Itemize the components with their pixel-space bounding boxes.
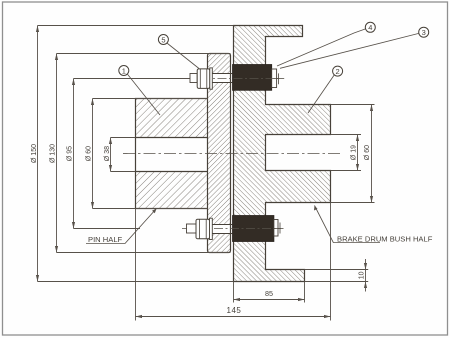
dimension D60 bottom extension line — [93, 208, 208, 210]
balloon 1 leader — [127, 74, 160, 115]
lower pin bolt centerline — [182, 228, 281, 230]
svg-text:Ø 60: Ø 60 — [86, 146, 93, 161]
dimension D95 bottom extension line — [74, 228, 141, 230]
svg-text:Ø 150: Ø 150 — [31, 144, 38, 163]
dimension D19 extension lines — [331, 135, 362, 171]
svg-text:4: 4 — [368, 23, 372, 32]
upper pin washer — [210, 68, 213, 89]
lower pin end cross mark — [274, 223, 284, 234]
dimension 10 extension lines — [305, 270, 369, 282]
upper pin nut — [197, 69, 210, 89]
brake drum hatched body — [234, 26, 331, 282]
upper pin bush (dark) — [233, 65, 272, 91]
balloon 4 leader — [277, 29, 366, 66]
label BRAKE DRUM BUSH HALF underline and leader — [315, 206, 381, 243]
svg-text:5: 5 — [161, 35, 165, 44]
dimension 85 horizontal line with arrows — [234, 299, 305, 301]
dimension D38 extension lines — [111, 138, 136, 172]
balloon circle 1 — [119, 66, 129, 76]
svg-text:1: 1 — [122, 66, 126, 75]
lower bush end cap — [274, 220, 278, 237]
dimension D130 bottom extension line — [57, 252, 231, 254]
dimension D150 bottom extension line — [38, 281, 234, 283]
dimension D130 top extension line — [57, 53, 231, 55]
balloon circle 2 — [333, 66, 343, 76]
dimension D19 right vertical line with arrows — [357, 135, 359, 171]
svg-text:Ø 19: Ø 19 — [351, 145, 358, 160]
dimension D38 vertical line with arrows — [110, 138, 112, 172]
upper pin shank — [212, 74, 232, 83]
dimension D150 vertical line with arrows — [37, 26, 39, 282]
dimension D95 vertical line with arrows — [73, 79, 75, 229]
svg-text:Ø 38: Ø 38 — [104, 146, 111, 161]
shaft bore centerline — [123, 153, 340, 155]
dimension D60 right extension lines — [331, 105, 375, 203]
pin half hub hatched lower area — [136, 172, 208, 209]
balloon 3 leader — [280, 33, 419, 68]
pin half hub hatched upper area — [136, 99, 208, 138]
upper pin threaded tip — [190, 74, 197, 83]
svg-text:10: 10 — [359, 271, 366, 279]
dimension D150 top extension line — [38, 25, 234, 27]
balloon circle 3 — [419, 27, 429, 37]
balloon circle 4 — [365, 22, 375, 32]
label PIN HALF underline and leader — [86, 209, 157, 244]
upper bush end cap — [272, 69, 277, 88]
svg-text:Ø 60: Ø 60 — [364, 145, 371, 160]
dimension D95 top extension line — [74, 78, 191, 80]
dimension 10 vertical line with outside arrows — [365, 259, 367, 292]
lower pin washer — [210, 218, 213, 239]
svg-text:145: 145 — [227, 306, 242, 315]
dimension 145 horizontal line with arrows — [136, 316, 331, 318]
svg-text:2: 2 — [336, 67, 340, 76]
upper pin bolt centerline — [186, 78, 282, 80]
dimension D60 right vertical line with arrows — [371, 105, 373, 203]
svg-text:Ø 130: Ø 130 — [50, 144, 57, 163]
svg-text:PIN HALF: PIN HALF — [88, 235, 123, 244]
lower pin bush (dark) — [233, 216, 274, 242]
upper pin end cross mark — [274, 73, 285, 84]
lower pin threaded tip — [187, 224, 197, 233]
svg-text:Ø 95: Ø 95 — [67, 146, 74, 161]
pin half flange hatched plate — [208, 54, 231, 253]
balloon 5 leader — [167, 43, 199, 69]
dimension D60 vertical line with arrows — [92, 99, 94, 209]
lower pin nut — [196, 219, 210, 239]
svg-text:BRAKE DRUM BUSH HALF: BRAKE DRUM BUSH HALF — [337, 234, 433, 243]
dimension D60 top extension line — [93, 98, 208, 100]
svg-text:3: 3 — [422, 28, 426, 37]
dimension 145 right extension line — [330, 203, 332, 321]
dimension D130 vertical line with arrows — [56, 54, 58, 253]
balloon circle 5 — [158, 35, 168, 45]
svg-text:85: 85 — [265, 289, 273, 298]
lower pin shank — [212, 225, 232, 234]
dimension 145 left extension line — [135, 209, 137, 321]
dimension 85 extension lines — [234, 282, 305, 303]
balloon 2 leader — [308, 75, 334, 113]
pin half hub outline — [136, 99, 208, 209]
